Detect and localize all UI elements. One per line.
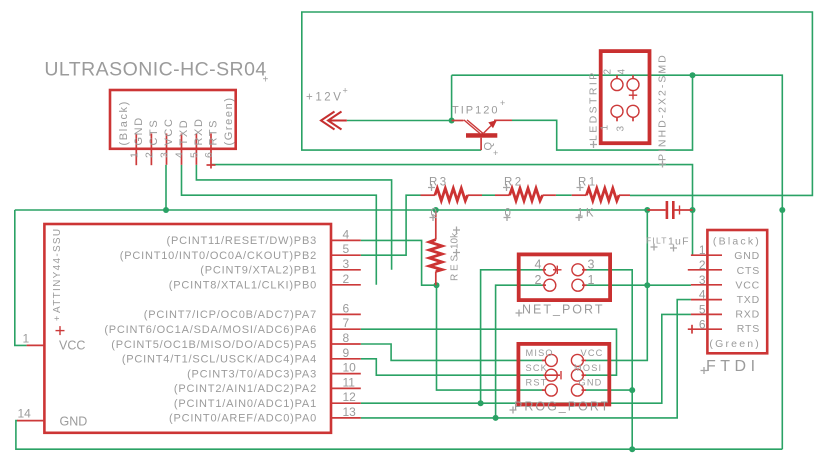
- transistor Q TIP120: [452, 120, 512, 150]
- svg-text:MOSI: MOSI: [574, 363, 602, 373]
- svg-text:VCC: VCC: [163, 117, 175, 145]
- svg-text:SCK: SCK: [526, 363, 549, 373]
- svg-text:10: 10: [343, 361, 357, 375]
- svg-text:CTS: CTS: [148, 119, 160, 146]
- svg-text:6: 6: [203, 152, 215, 158]
- svg-text:6: 6: [699, 317, 706, 331]
- NET_PORT name cross: [516, 310, 523, 317]
- U1 right pin labels: [104, 235, 317, 425]
- wire net: IC pin13 PA0 to FTDI TXD: [361, 300, 691, 418]
- svg-text:(PCINT3/T0/ADC3)PA3: (PCINT3/T0/ADC3)PA3: [187, 368, 317, 380]
- svg-text:+: +: [52, 316, 62, 321]
- NET_PORT origin cross: [553, 266, 562, 274]
- svg-text:6: 6: [343, 301, 350, 315]
- FTDI pin labels: [709, 236, 761, 350]
- resistor R2: [495, 188, 556, 200]
- svg-text:(PCINT7/ICP/OC0B/ADC7)PA7: (PCINT7/ICP/OC0B/ADC7)PA7: [144, 309, 317, 321]
- RES_10k label crosses: [453, 227, 460, 257]
- wire R3-R2 link: [482, 194, 495, 196]
- connector NET_PORT box: [519, 254, 610, 300]
- node: cap right GND: [690, 207, 696, 213]
- connector J1 ULTRASONIC-HC-SR04 box: [110, 90, 236, 149]
- svg-text:PROG_PORT: PROG_PORT: [514, 400, 610, 414]
- node: pin12 line at NET4 drop: [478, 400, 484, 406]
- U1 rotated name ATTINY44-SSU: [52, 228, 63, 321]
- svg-text:PINHD-2X2-SMD: PINHD-2X2-SMD: [657, 53, 669, 161]
- R2 labels: [504, 177, 524, 220]
- J1 rotated pin numbers: [128, 152, 215, 158]
- U1 right pin stubs: [331, 240, 361, 418]
- node: right GND drop: [779, 207, 785, 213]
- NET_PORT name: [522, 303, 604, 317]
- NET_PORT pad numbers: [535, 258, 595, 287]
- svg-text:(Black): (Black): [713, 236, 761, 248]
- svg-text:NET_PORT: NET_PORT: [522, 303, 604, 317]
- connector FTDI box: [707, 230, 767, 353]
- wire GND net: IC pin14 to bottom GND rail: [16, 421, 782, 450]
- svg-text:ULTRASONIC-HC-SR04: ULTRASONIC-HC-SR04: [44, 59, 266, 81]
- svg-text:14: 14: [18, 407, 32, 421]
- svg-text:+: +: [263, 75, 269, 86]
- svg-text:RTS: RTS: [208, 119, 220, 146]
- resistor RES_10k vertical: [429, 211, 442, 285]
- svg-text:3: 3: [699, 273, 706, 287]
- svg-text:RXD: RXD: [193, 117, 205, 145]
- wire net: NET_PORT pin2 to IC pin13 line: [496, 285, 544, 418]
- R1 labels: [577, 177, 598, 220]
- svg-text:3: 3: [159, 152, 171, 158]
- node: PROG GND row: [629, 387, 635, 393]
- U1 pin numbers: [18, 227, 357, 420]
- svg-text:(PCINT10/INT0/OC0A/CKOUT)PB2: (PCINT10/INT0/OC0A/CKOUT)PB2: [120, 250, 317, 262]
- PROG_PORT origin cross: [560, 371, 562, 379]
- svg-text:VCC: VCC: [581, 348, 604, 358]
- node: VCC rail mid at cap drop: [644, 282, 650, 288]
- wire VCC net: IC pin1 to VCC rail: [15, 165, 648, 346]
- svg-text:4: 4: [535, 258, 542, 272]
- svg-text:VCC: VCC: [735, 279, 760, 291]
- wire net: IC pin4 RESET to RES_10k bottom and PROG RST: [361, 240, 544, 390]
- svg-text:13: 13: [343, 405, 357, 419]
- connector PROG_PORT box: [518, 344, 609, 405]
- wire net: IC pin8 PA5 to PROG MISO: [361, 344, 544, 360]
- RES_10k rotated labels: [450, 232, 461, 281]
- wire net: IC pin7 PA6 to PROG MOSI: [361, 329, 617, 375]
- svg-text:TIP120: TIP120: [452, 104, 499, 116]
- U1 origin cross: [56, 326, 65, 335]
- wire net: TIP120 emitter to LEDSTRIP top row: [512, 75, 693, 150]
- svg-text:GND: GND: [734, 250, 760, 262]
- svg-text:4: 4: [174, 152, 186, 158]
- FILT 1uF labels: [646, 236, 690, 248]
- wire net: NET_PORT pin4 to IC pin12 line: [481, 270, 544, 403]
- svg-text:CTS: CTS: [737, 265, 760, 277]
- LEDSTRIP rotated pad numbers: [600, 69, 628, 132]
- svg-text:(PCINT9/XTAL2)PB1: (PCINT9/XTAL2)PB1: [200, 265, 317, 277]
- svg-text:8: 8: [343, 331, 350, 345]
- svg-text:(PCINT0/AREF/ADC0)PA0: (PCINT0/AREF/ADC0)PA0: [169, 413, 317, 425]
- svg-text:1: 1: [23, 331, 30, 345]
- svg-text:10k: 10k: [450, 232, 461, 249]
- svg-text:4: 4: [617, 69, 628, 75]
- label title ULTRASONIC-HC-SR04: [44, 59, 268, 86]
- IC U1 ATTINY44-SSU body: [44, 224, 331, 433]
- svg-text:TXD: TXD: [178, 119, 190, 146]
- svg-text:+: +: [500, 98, 505, 108]
- svg-text:(Green): (Green): [709, 338, 761, 350]
- svg-text:+: +: [343, 86, 348, 96]
- node: sensor VCC on rail: [163, 207, 169, 213]
- svg-text:7: 7: [343, 316, 350, 330]
- cap label crosses: [651, 244, 678, 252]
- PROG_PORT name: [514, 400, 610, 414]
- svg-text:GND: GND: [60, 414, 88, 428]
- svg-text:(PCINT1/AIN0/ADC1)PA1: (PCINT1/AIN0/ADC1)PA1: [174, 398, 317, 410]
- svg-text:1: 1: [588, 273, 595, 287]
- svg-text:MISO: MISO: [526, 348, 554, 358]
- node: RES_10k top on rail: [433, 207, 439, 213]
- FTDI name cross: [701, 367, 708, 374]
- svg-text:2: 2: [143, 152, 155, 158]
- svg-text:3: 3: [616, 126, 627, 132]
- LEDSTRIP origin cross: [629, 91, 637, 100]
- svg-text:5: 5: [188, 152, 200, 158]
- svg-text:(PCINT8/XTAL1/CLKI)PB0: (PCINT8/XTAL1/CLKI)PB0: [169, 280, 317, 292]
- svg-text:GND: GND: [579, 378, 603, 388]
- svg-text:11: 11: [343, 375, 356, 389]
- node: pin13 line at NET2 drop: [493, 415, 499, 421]
- J1 rotated pin name labels: [118, 96, 235, 145]
- svg-text:2: 2: [535, 273, 542, 287]
- node: LEDSTRIP row junction: [690, 72, 696, 78]
- Q TIP120 labels: [452, 98, 505, 158]
- connector J1 pins 1-6: [136, 134, 215, 169]
- wire net: R1 right through top loop to TIP120 collector: [302, 12, 813, 195]
- PROG_PORT name cross: [510, 407, 517, 414]
- wire net: +12V to TIP120 base: [347, 120, 452, 122]
- power symbol +12V arrow: [321, 112, 347, 130]
- svg-text:12: 12: [343, 390, 357, 404]
- svg-text:4: 4: [699, 288, 706, 302]
- resistor R1: [572, 188, 630, 200]
- wire net: sensor TXD to IC pin2 PB0: [182, 165, 377, 285]
- svg-text:+12V: +12V: [306, 92, 344, 104]
- svg-text:1: 1: [699, 243, 706, 257]
- svg-text:TXD: TXD: [737, 294, 760, 306]
- wire net: IC pin9 PA4 jog down to PROG SCK: [361, 359, 544, 375]
- wire net: sensor RXD to IC pin3 PB1: [196, 165, 391, 270]
- wire net: cap left to VCC rail and PROG VCC: [586, 210, 648, 360]
- svg-text:(Green): (Green): [223, 96, 235, 145]
- svg-text:1: 1: [600, 125, 611, 131]
- svg-text:LEDSTRIP: LEDSTRIP: [588, 70, 600, 141]
- svg-text:2: 2: [699, 258, 706, 272]
- wire net: NET_PORT pin1 to FTDI VCC: [586, 284, 691, 286]
- NET_PORT pads: [543, 264, 587, 291]
- svg-text:1: 1: [128, 152, 140, 158]
- svg-text:ATTINY44-SSU: ATTINY44-SSU: [52, 228, 63, 313]
- PROG_PORT pads: [542, 354, 586, 396]
- resistor R3: [421, 188, 483, 200]
- svg-text:FTDI: FTDI: [706, 358, 760, 375]
- svg-text:(PCINT6/OC1A/SDA/MOSI/ADC6)PA6: (PCINT6/OC1A/SDA/MOSI/ADC6)PA6: [104, 324, 317, 336]
- wire net: cap right to FTDI GND: [692, 210, 694, 255]
- svg-text:+: +: [493, 148, 498, 158]
- svg-text:RTS: RTS: [737, 323, 760, 335]
- svg-text:RST: RST: [526, 378, 548, 388]
- svg-text:(PCINT11/RESET/DW)PB3: (PCINT11/RESET/DW)PB3: [167, 235, 317, 247]
- capacitor FILT 1uF: [647, 201, 692, 219]
- wire net: IC pin5 PB2 to R3 left: [361, 195, 421, 255]
- +12V label: [306, 86, 348, 104]
- svg-text:(PCINT5/OC1B/MISO/DO/ADC5)PA5: (PCINT5/OC1B/MISO/DO/ADC5)PA5: [111, 339, 317, 351]
- U1 left pin stubs: [17, 345, 44, 420]
- svg-text:(PCINT4/T1/SCL/USCK/ADC4)PA4: (PCINT4/T1/SCL/USCK/ADC4)PA4: [122, 354, 317, 366]
- LEDSTRIP rotated labels: [588, 53, 669, 161]
- wire R2-R1 link: [556, 194, 572, 196]
- svg-text:9: 9: [343, 346, 350, 360]
- wire net: NET_PORT pin3 to PROG GND and bottom rail: [586, 270, 633, 449]
- svg-text:VCC: VCC: [59, 339, 85, 353]
- LEDSTRIP label crosses: [590, 141, 666, 168]
- svg-text:RXD: RXD: [735, 309, 760, 321]
- R3 labels: [429, 177, 449, 220]
- wire net: sensor RTS to GND rail: [212, 165, 693, 210]
- resistor label crosses: [428, 184, 584, 221]
- svg-text:1uF: 1uF: [668, 236, 690, 248]
- node: cap left on rail: [644, 207, 650, 213]
- svg-text:2: 2: [603, 69, 614, 75]
- svg-text:3: 3: [588, 258, 595, 272]
- FTDI name: [706, 358, 760, 375]
- svg-text:GND: GND: [133, 116, 145, 145]
- node: TIP120 base junction: [449, 118, 455, 124]
- svg-text:(Black): (Black): [118, 100, 130, 145]
- svg-text:FILT: FILT: [646, 236, 668, 246]
- wire net: IC pin12 PA1 to FTDI RXD: [361, 314, 691, 403]
- PROG_PORT pad labels: [526, 348, 604, 388]
- FTDI pins 1-6: [688, 255, 722, 333]
- svg-text:5: 5: [699, 303, 706, 317]
- svg-text:2: 2: [343, 272, 350, 286]
- FTDI pin numbers: [699, 243, 706, 331]
- node: bottom rail at PROG GND drop: [629, 446, 635, 452]
- wire net: LEDSTRIP top row to right-side GND drop: [452, 75, 783, 449]
- svg-text:3: 3: [343, 257, 350, 271]
- connector LEDSTRIP PINHD-2X2-SMD box: [601, 51, 650, 143]
- svg-text:5: 5: [343, 242, 350, 256]
- svg-text:RES: RES: [450, 252, 461, 281]
- LEDSTRIP pads: [611, 75, 639, 121]
- svg-text:4: 4: [343, 227, 350, 241]
- node: RES_10k bottom: [434, 282, 440, 288]
- svg-text:(PCINT2/AIN1/ADC2)PA2: (PCINT2/AIN1/ADC2)PA2: [174, 383, 317, 395]
- U1 left pin labels: [59, 339, 87, 429]
